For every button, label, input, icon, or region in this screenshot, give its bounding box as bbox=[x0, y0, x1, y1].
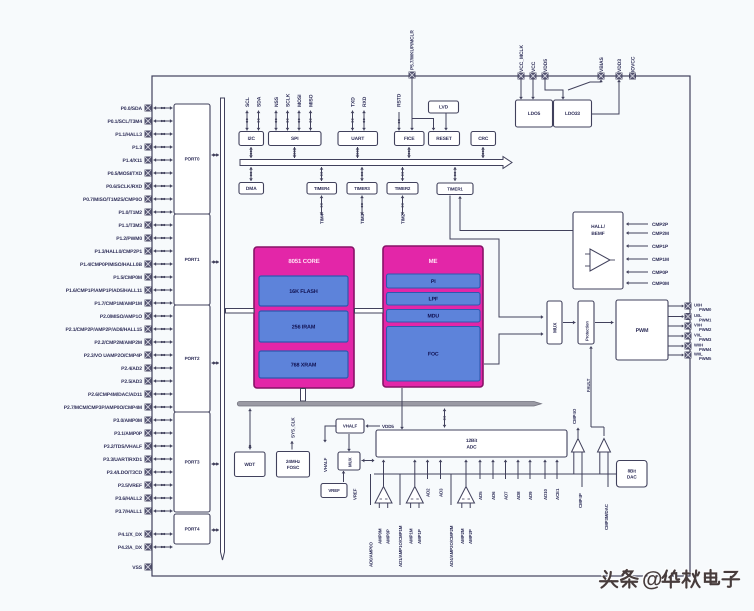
svg-text:P1.0/T1M2: P1.0/T1M2 bbox=[118, 210, 142, 216]
svg-text:BEMF: BEMF bbox=[591, 231, 604, 237]
svg-text:MUX: MUX bbox=[348, 457, 353, 467]
svg-text:NSS: NSS bbox=[274, 96, 280, 107]
HALL/BEMF comparator block bbox=[573, 212, 623, 289]
ADC input AD8 bbox=[516, 460, 520, 480]
PORT0 box bbox=[174, 104, 210, 214]
ADC input AD6 bbox=[491, 460, 495, 480]
pin P0.7/MISO/T1M2S/CMP0O bbox=[83, 197, 142, 203]
wire VHALF out left bbox=[325, 426, 336, 440]
pin P0.0/SDA bbox=[121, 106, 143, 112]
svg-text:AD4/AMP2O/CMP2M: AD4/AMP2O/CMP2M bbox=[449, 525, 454, 567]
svg-text:CMP2P: CMP2P bbox=[652, 222, 669, 228]
op-amp at 466 bbox=[458, 460, 475, 509]
TIMER3 block bbox=[347, 183, 377, 195]
svg-text:AMP1M: AMP1M bbox=[409, 528, 414, 544]
wire LDO33 to VDD3 bbox=[592, 81, 620, 114]
signal TIM2 bbox=[401, 196, 405, 216]
svg-text:TXD: TXD bbox=[350, 97, 356, 107]
DMA block bbox=[239, 183, 264, 195]
pin P1.4/X11 bbox=[123, 158, 143, 164]
svg-text:VSS: VSS bbox=[132, 565, 142, 571]
svg-text:P2.5/AD3: P2.5/AD3 bbox=[121, 379, 142, 385]
svg-text:VREF: VREF bbox=[328, 488, 340, 493]
svg-text:P2.6/CMP4M/DAC/AD11: P2.6/CMP4M/DAC/AD11 bbox=[88, 392, 142, 398]
svg-text:AD2: AD2 bbox=[426, 488, 431, 497]
ADC input AD3 bbox=[439, 460, 443, 480]
pin P2.5/AD3 bbox=[121, 379, 142, 385]
svg-text:I2C: I2C bbox=[248, 136, 256, 142]
ADC input ACE1 bbox=[555, 460, 559, 480]
svg-text:TIM2: TIM2 bbox=[401, 213, 406, 224]
PWM output PWM4 bbox=[668, 344, 684, 347]
ADC input AD10 bbox=[543, 460, 547, 480]
svg-text:P0.0/SDA: P0.0/SDA bbox=[121, 106, 143, 112]
wire ME to MUX input2 bbox=[484, 334, 541, 364]
svg-text:P3.3/UART/RXD1: P3.3/UART/RXD1 bbox=[103, 457, 142, 463]
svg-text:AMP2M: AMP2M bbox=[460, 528, 465, 544]
pin P2.0/MISO/AMP1O bbox=[100, 314, 142, 320]
svg-text:AD10: AD10 bbox=[543, 488, 548, 500]
svg-text:P3.5/VREF: P3.5/VREF bbox=[118, 483, 142, 489]
I2C block bbox=[239, 132, 264, 146]
chip boundary bbox=[152, 76, 690, 576]
wire HALL/BEMF to TIMER1 bbox=[460, 198, 573, 231]
pin P3.4/LDO/T3CD bbox=[107, 470, 143, 476]
watermark toutiao at huaqiu bbox=[599, 567, 738, 590]
svg-text:AMP0M: AMP0M bbox=[377, 528, 382, 544]
svg-text:SPI: SPI bbox=[291, 136, 299, 142]
pin P4.2/A_DX bbox=[118, 545, 143, 551]
signal TIM3 bbox=[360, 196, 364, 216]
LDO33 block bbox=[554, 100, 592, 127]
svg-text:@: @ bbox=[642, 568, 662, 591]
svg-text:VBIAS: VBIAS bbox=[599, 56, 605, 72]
port to crossbar arrows bbox=[212, 260, 220, 264]
wire branch to RESET bbox=[412, 119, 434, 129]
svg-text:P3.7/HALL1: P3.7/HALL1 bbox=[115, 509, 142, 515]
svg-text:TIMER2: TIMER2 bbox=[395, 186, 411, 191]
PWM output PWM1 bbox=[668, 315, 684, 318]
wire ME to ADC bbox=[401, 388, 403, 427]
pin P1.4/CMP0P/MISO/HALL0B bbox=[80, 262, 142, 268]
svg-text:CRC: CRC bbox=[478, 136, 489, 142]
svg-text:P1.3: P1.3 bbox=[132, 145, 142, 151]
svg-text:256 IRAM: 256 IRAM bbox=[292, 324, 316, 330]
svg-text:VREF: VREF bbox=[353, 488, 358, 500]
wire VCC to LDO5 bbox=[532, 79, 534, 97]
svg-text:P1.7/CMP1M/AMP1M: P1.7/CMP1M/AMP1M bbox=[94, 301, 142, 307]
signal CMP0P bbox=[626, 270, 669, 276]
Protection block bbox=[578, 301, 594, 344]
bus link arrow down bbox=[401, 167, 405, 181]
LPF block bbox=[387, 293, 481, 306]
MUX to ADC arrow bbox=[362, 459, 375, 463]
svg-text:PORT1: PORT1 bbox=[185, 257, 200, 262]
pin P0.1/SCL/T3M4 bbox=[107, 119, 142, 125]
svg-text:PORT2: PORT2 bbox=[185, 356, 200, 361]
svg-text:16K FLASH: 16K FLASH bbox=[289, 289, 318, 295]
pin P4.1/X_DX bbox=[118, 532, 143, 538]
bus link arrow bbox=[293, 147, 297, 158]
svg-text:MISO: MISO bbox=[308, 94, 314, 107]
bus link arrow bbox=[249, 147, 253, 158]
pin P2.7/MCM/CMP3P/AMP0O/CMP4M bbox=[64, 405, 142, 411]
svg-text:DMA: DMA bbox=[246, 186, 257, 192]
svg-text:AD3: AD3 bbox=[439, 488, 444, 497]
svg-text:MOSI: MOSI bbox=[297, 94, 303, 107]
pin P1.6/CMP1P/AMP1P/AD5/HALL11 bbox=[66, 288, 143, 294]
svg-text:P1.4/CMP0P/MISO/HALL0B: P1.4/CMP0P/MISO/HALL0B bbox=[80, 262, 142, 268]
pin P2.6/CMP4M/DAC/AD11 bbox=[88, 392, 142, 398]
wire VCC_MCLK to LDO5 bbox=[520, 79, 522, 97]
svg-text:P1.1/HALL3: P1.1/HALL3 bbox=[115, 132, 142, 138]
CRC block bbox=[471, 132, 496, 146]
port to crossbar arrows bbox=[212, 528, 220, 532]
svg-text:24MHz: 24MHz bbox=[286, 459, 301, 464]
signal CMP1M bbox=[626, 257, 669, 263]
reference MUX block bbox=[338, 452, 360, 470]
svg-text:ME: ME bbox=[429, 258, 438, 265]
FOC block bbox=[387, 327, 481, 382]
comparator CMP3 bbox=[598, 439, 611, 488]
svg-text:PI: PI bbox=[431, 279, 436, 285]
pin P2.4/AD2 bbox=[121, 366, 142, 372]
signal TIM4 bbox=[320, 196, 324, 216]
PORT1 box bbox=[174, 214, 210, 305]
ADC input AD4/AMP2O/CMP2M bbox=[450, 474, 452, 505]
svg-text:AD7: AD7 bbox=[504, 491, 509, 500]
svg-text:P1.3/HALL0/CMP2P1: P1.3/HALL0/CMP2P1 bbox=[95, 249, 143, 255]
comparator CMP4 bbox=[572, 428, 585, 488]
svg-text:LDO5: LDO5 bbox=[528, 111, 541, 117]
8051 CORE block bbox=[254, 247, 354, 388]
svg-text:UART: UART bbox=[351, 136, 364, 142]
svg-text:P2.0/MISO/AMP1O: P2.0/MISO/AMP1O bbox=[100, 314, 142, 320]
svg-text:PORT0: PORT0 bbox=[185, 157, 200, 162]
svg-text:AD8: AD8 bbox=[516, 491, 521, 500]
pin P3.6/HALL2 bbox=[115, 496, 142, 502]
svg-text:CMP4P: CMP4P bbox=[578, 493, 583, 508]
svg-text:P3.2/TDS/VHALF: P3.2/TDS/VHALF bbox=[104, 444, 142, 450]
SPI block bbox=[269, 132, 322, 146]
pin P1.1/T3M3 bbox=[118, 223, 142, 229]
MDU block bbox=[387, 310, 481, 323]
op-amp at 414.8 bbox=[406, 460, 423, 509]
svg-text:768 XRAM: 768 XRAM bbox=[291, 362, 317, 368]
svg-text:P0.5/MOSI/TXD: P0.5/MOSI/TXD bbox=[107, 171, 142, 177]
svg-text:VCC_MCLK: VCC_MCLK bbox=[519, 45, 525, 72]
wire to VBIAS bbox=[568, 81, 601, 90]
svg-text:PWM: PWM bbox=[636, 328, 649, 334]
wire VREF to MUX bbox=[343, 471, 345, 482]
MUX block bbox=[547, 301, 562, 344]
pin P3.1/AMP0P bbox=[114, 431, 143, 437]
svg-text:P2.4/AD2: P2.4/AD2 bbox=[121, 366, 142, 372]
svg-text:PORT4: PORT4 bbox=[185, 527, 200, 532]
svg-text:P0.6/SCLK/RXD: P0.6/SCLK/RXD bbox=[106, 184, 142, 190]
12bit ADC block bbox=[376, 430, 567, 457]
PWM block bbox=[616, 300, 668, 360]
svg-text:CMP2M: CMP2M bbox=[652, 231, 669, 237]
pin P3.7/HALL1 bbox=[115, 509, 142, 515]
PWM output PWM5 bbox=[668, 353, 684, 356]
svg-text:P3.1/AMP0P: P3.1/AMP0P bbox=[114, 431, 143, 437]
ME motor engine block bbox=[383, 246, 483, 387]
pin P3.2/TDS/VHALF bbox=[104, 444, 142, 450]
reference rail wire bbox=[374, 473, 616, 475]
svg-text:CMP0M: CMP0M bbox=[652, 281, 669, 287]
wire TIMER1 to MUX input1 bbox=[450, 196, 541, 318]
svg-text:IOVCC: IOVCC bbox=[630, 56, 636, 72]
svg-text:PWM2: PWM2 bbox=[699, 327, 712, 332]
signal CMP2P bbox=[626, 222, 669, 228]
bus link arrow down bbox=[453, 167, 457, 181]
svg-text:DAC: DAC bbox=[627, 475, 637, 480]
svg-text:CMP1M: CMP1M bbox=[652, 257, 669, 263]
svg-text:8Bit: 8Bit bbox=[628, 468, 637, 473]
svg-text:WDT: WDT bbox=[244, 462, 255, 468]
svg-text:AMP0P: AMP0P bbox=[386, 529, 391, 544]
pin P2.2/CMP2M/AMP2M bbox=[94, 340, 142, 346]
svg-text:AD5: AD5 bbox=[478, 491, 483, 500]
bar to ADC arrow bbox=[443, 409, 447, 428]
main peripheral bus arrow bbox=[240, 157, 512, 169]
bus link arrow bbox=[356, 147, 360, 158]
LDO5 block bbox=[516, 100, 553, 127]
16K FLASH block bbox=[259, 276, 348, 306]
ADC input AD7 bbox=[504, 460, 508, 480]
svg-text:LPF: LPF bbox=[429, 297, 439, 303]
signal CMP2M bbox=[626, 231, 669, 237]
CRC bus link bbox=[481, 147, 485, 158]
svg-text:SDA: SDA bbox=[256, 96, 262, 107]
pin P1.0/T1M2 bbox=[118, 210, 142, 216]
svg-text:PWM3: PWM3 bbox=[699, 337, 712, 342]
svg-text:TIM3: TIM3 bbox=[360, 213, 365, 224]
wire VHALF to MUX bbox=[348, 434, 350, 449]
ADC input AD2 bbox=[426, 460, 430, 480]
svg-text:FICE: FICE bbox=[404, 136, 415, 142]
svg-text:P3.4/LDO/T3CD: P3.4/LDO/T3CD bbox=[107, 470, 143, 476]
svg-text:PWM5: PWM5 bbox=[699, 356, 712, 361]
svg-text:PWM0: PWM0 bbox=[699, 307, 712, 312]
svg-text:SYS_CLK: SYS_CLK bbox=[291, 417, 296, 438]
8bit DAC block bbox=[617, 461, 648, 488]
bar to WDT arrow bbox=[248, 409, 252, 450]
svg-text:P2.1/CMP2P/AMP2P/AD8/HALL15: P2.1/CMP2P/AMP2P/AD8/HALL15 bbox=[66, 327, 143, 333]
pin P1.2/PWM0 bbox=[116, 236, 142, 242]
VDD5 label bbox=[366, 424, 395, 429]
svg-text:SCLK: SCLK bbox=[285, 93, 291, 107]
svg-text:FOC: FOC bbox=[428, 352, 439, 358]
pin VSS bbox=[132, 565, 142, 571]
svg-text:P1.4/X11: P1.4/X11 bbox=[123, 158, 143, 164]
svg-text:VHALF: VHALF bbox=[323, 457, 328, 472]
wire P5.7 pad to FICE bbox=[411, 78, 413, 128]
svg-text:P5.7/WKUP/MCLR: P5.7/WKUP/MCLR bbox=[410, 30, 416, 70]
VHALF block bbox=[336, 419, 364, 433]
svg-text:HALL/: HALL/ bbox=[591, 224, 605, 230]
PORT3 box bbox=[174, 412, 210, 512]
svg-text:P0.7/MISO/T1M2S/CMP0O: P0.7/MISO/T1M2S/CMP0O bbox=[83, 197, 142, 203]
svg-text:AMP1P: AMP1P bbox=[417, 529, 422, 544]
bus link arrow down bbox=[249, 167, 253, 181]
svg-text:P2.3/VO UAMP2O/CMP4P: P2.3/VO UAMP2O/CMP4P bbox=[84, 353, 143, 359]
WDT block bbox=[235, 452, 266, 477]
svg-text:P3.6/HALL2: P3.6/HALL2 bbox=[115, 496, 142, 502]
svg-text:VDD3: VDD3 bbox=[617, 59, 623, 72]
pin P1.7/CMP1M/AMP1M bbox=[94, 301, 142, 307]
svg-text:FOSC: FOSC bbox=[287, 465, 300, 470]
FOSC block bbox=[277, 452, 310, 478]
svg-text:AD9: AD9 bbox=[528, 491, 533, 500]
768 XRAM block bbox=[259, 351, 348, 378]
svg-text:AD0/AMP0O: AD0/AMP0O bbox=[369, 542, 374, 567]
svg-text:MUX: MUX bbox=[553, 322, 559, 333]
svg-text:CMP4O: CMP4O bbox=[572, 408, 577, 424]
bus 8051 to ME bbox=[355, 309, 384, 314]
svg-text:P3.0/AMP0M: P3.0/AMP0M bbox=[113, 418, 142, 424]
svg-text:VDD5: VDD5 bbox=[382, 424, 394, 429]
svg-text:CMP3M/DAC: CMP3M/DAC bbox=[604, 503, 609, 530]
svg-text:PORT3: PORT3 bbox=[185, 460, 200, 465]
pin P1.1/HALL3 bbox=[115, 132, 142, 138]
ADC input AD1/AMP1O/CMP1M bbox=[399, 474, 401, 505]
bus link arrow bbox=[407, 147, 411, 158]
RESET block bbox=[429, 132, 460, 146]
TIMER1 block bbox=[437, 183, 473, 195]
svg-text:12Bit: 12Bit bbox=[466, 438, 478, 444]
PORT2 box bbox=[174, 305, 210, 412]
svg-text:ADC: ADC bbox=[466, 444, 477, 450]
svg-text:P4.1/X_DX: P4.1/X_DX bbox=[118, 532, 143, 538]
svg-text:AD6: AD6 bbox=[491, 491, 496, 500]
bus link arrow down bbox=[320, 167, 324, 181]
TIMER2 block bbox=[387, 183, 418, 195]
svg-text:VHALF: VHALF bbox=[343, 424, 358, 429]
svg-text:CMP1P: CMP1P bbox=[652, 244, 669, 250]
port to crossbar arrows bbox=[212, 153, 220, 157]
Protection to PWM bbox=[595, 321, 614, 325]
UART block bbox=[338, 132, 378, 146]
PWM output PWM0 bbox=[668, 304, 684, 307]
pin P1.3 bbox=[132, 145, 142, 151]
svg-text:P1.5/CMP0M: P1.5/CMP0M bbox=[113, 275, 142, 281]
256 IRAM block bbox=[259, 311, 348, 342]
ADC input AD5 bbox=[478, 460, 482, 480]
bus crossbar to 8051 bbox=[226, 309, 255, 314]
svg-text:P1.2/PWM0: P1.2/PWM0 bbox=[116, 236, 142, 242]
svg-text:Protection: Protection bbox=[585, 321, 590, 341]
port to crossbar arrows bbox=[212, 462, 220, 466]
bus 8051 to SYS bar bbox=[301, 389, 306, 402]
svg-text:LVD: LVD bbox=[439, 105, 449, 111]
svg-text:VDD5: VDD5 bbox=[543, 59, 549, 72]
svg-text:AD1/AMP1O/CMP1M: AD1/AMP1O/CMP1M bbox=[398, 525, 403, 567]
FAULT wire bbox=[590, 348, 592, 427]
svg-text:SCL: SCL bbox=[245, 97, 251, 107]
signal CMP0M bbox=[626, 281, 669, 287]
TIMER4 block bbox=[307, 183, 337, 195]
svg-text:AMP2P: AMP2P bbox=[468, 529, 473, 544]
pin P2.3/VO UAMP2O/CMP4P bbox=[84, 353, 143, 359]
svg-text:ACE1: ACE1 bbox=[555, 488, 560, 500]
wire VDD5 to LDO33 bbox=[545, 79, 563, 97]
bus link arrow down bbox=[360, 167, 364, 181]
svg-text:P1.6/CMP1P/AMP1P/AD5/HALL11: P1.6/CMP1P/AMP1P/AD5/HALL11 bbox=[66, 288, 143, 294]
PI block bbox=[387, 274, 481, 288]
wire LVD to RESET bbox=[445, 113, 447, 128]
svg-text:MDU: MDU bbox=[427, 314, 439, 320]
svg-text:P4.2/A_DX: P4.2/A_DX bbox=[118, 545, 143, 551]
pin P3.3/UART/RXD1 bbox=[103, 457, 142, 463]
pin P0.5/MOSI/TXD bbox=[107, 171, 142, 177]
svg-text:P0.1/SCL/T3M4: P0.1/SCL/T3M4 bbox=[107, 119, 142, 125]
pin P1.5/CMP0M bbox=[113, 275, 142, 281]
svg-text:P2.7/MCM/CMP3P/AMP0O/CMP4M: P2.7/MCM/CMP3P/AMP0O/CMP4M bbox=[64, 405, 142, 411]
FICE debug block bbox=[395, 132, 425, 146]
MUX to Protection bbox=[563, 321, 576, 325]
svg-text:RXD: RXD bbox=[362, 96, 368, 107]
svg-text:TIMER4: TIMER4 bbox=[314, 186, 330, 191]
pin P1.3/HALL0/CMP2P1 bbox=[95, 249, 143, 255]
svg-text:RSTD: RSTD bbox=[397, 93, 403, 107]
VREF block bbox=[321, 484, 347, 498]
svg-text:TIMER1: TIMER1 bbox=[447, 186, 463, 191]
svg-text:FAULT: FAULT bbox=[586, 378, 591, 392]
GPIO crossbar vertical bus bar bbox=[221, 98, 225, 560]
svg-text:TIMER3: TIMER3 bbox=[354, 186, 370, 191]
FOSC to SYS_CLK arrow bbox=[290, 441, 294, 450]
ADC input AD0/AMP0O bbox=[370, 474, 372, 505]
svg-text:VCC: VCC bbox=[531, 61, 537, 72]
pin P2.1/CMP2P/AMP2P/AD8/HALL15 bbox=[66, 327, 143, 333]
pin P3.5/VREF bbox=[118, 483, 142, 489]
VSS wire bbox=[151, 567, 153, 576]
op-amp at 383.5 bbox=[375, 460, 392, 509]
svg-text:P1.1/T3M3: P1.1/T3M3 bbox=[118, 223, 142, 229]
ADC input AD9 bbox=[528, 460, 532, 480]
PWM output PWM2 bbox=[668, 324, 684, 327]
svg-text:8051 CORE: 8051 CORE bbox=[288, 258, 319, 265]
PWM output PWM3 bbox=[668, 334, 684, 337]
LVD block bbox=[429, 101, 459, 113]
port to crossbar arrows bbox=[212, 361, 220, 365]
svg-text:CMP0P: CMP0P bbox=[652, 270, 669, 276]
pin P0.6/SCLK/RXD bbox=[106, 184, 142, 190]
svg-text:LDO33: LDO33 bbox=[565, 111, 580, 117]
signal CMP1P bbox=[626, 244, 669, 250]
svg-text:RESET: RESET bbox=[436, 136, 452, 142]
system clock gray bar bbox=[237, 402, 541, 407]
PORT4 box bbox=[174, 514, 210, 544]
svg-text:P2.2/CMP2M/AMP2M: P2.2/CMP2M/AMP2M bbox=[94, 340, 142, 346]
svg-text:TIM4: TIM4 bbox=[320, 213, 325, 224]
pin P3.0/AMP0M bbox=[113, 418, 142, 424]
